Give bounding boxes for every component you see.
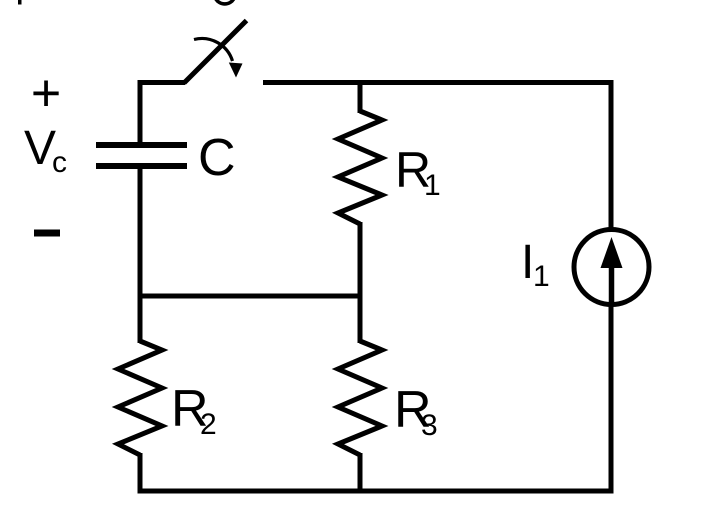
capacitor C top plate xyxy=(96,142,187,148)
svg-text:c: c xyxy=(52,146,67,179)
cropped text descender loop (letter g) xyxy=(216,0,235,4)
svg-text:C: C xyxy=(198,129,236,187)
wire middle branch upper stub (top wire to R1) xyxy=(358,80,363,113)
svg-text:+: + xyxy=(31,65,61,123)
svg-text:3: 3 xyxy=(421,409,438,442)
label R1 xyxy=(395,142,441,202)
current source I1 arrow shaft xyxy=(609,262,615,304)
wire R1 to middle node xyxy=(358,222,363,298)
svg-text:1: 1 xyxy=(533,260,550,293)
resistor R3 zigzag xyxy=(338,341,382,455)
svg-text:1: 1 xyxy=(424,169,441,202)
current source I1 arrowhead xyxy=(601,237,623,268)
middle node wire (horizontal) xyxy=(138,294,363,299)
wire right branch lower (current source to bottom-right corner) xyxy=(609,304,614,494)
wire middle node to R3 xyxy=(358,294,363,343)
cropped text descender stub (letter p) xyxy=(18,0,22,5)
label - (capacitor polarity) xyxy=(34,230,60,237)
wire R3 to bottom xyxy=(358,453,363,494)
switch SW1 blade xyxy=(184,21,247,84)
svg-text:2: 2 xyxy=(200,408,217,441)
wire top-left (switch stub to left corner) xyxy=(140,80,185,85)
label R2 xyxy=(171,380,217,441)
wire R2 to bottom-left corner xyxy=(138,453,143,494)
switch SW1 closing arc xyxy=(194,38,233,61)
wire left branch upper (top corner down to capacitor) xyxy=(138,80,143,143)
label Vc xyxy=(24,122,67,179)
wire left branch lower (capacitor to R2) xyxy=(138,166,143,343)
resistor R2 zigzag xyxy=(118,341,162,455)
current source I1 circle xyxy=(574,230,649,305)
wire right branch upper (top corner to current source) xyxy=(609,80,614,230)
capacitor C bottom plate xyxy=(96,163,187,169)
switch SW1 arrowhead xyxy=(229,63,243,78)
resistor R1 zigzag xyxy=(338,111,382,224)
wire top (switch to top-right corner) xyxy=(263,80,614,85)
label R3 xyxy=(394,381,438,442)
label I1 xyxy=(521,236,550,293)
bottom wire xyxy=(138,489,614,494)
